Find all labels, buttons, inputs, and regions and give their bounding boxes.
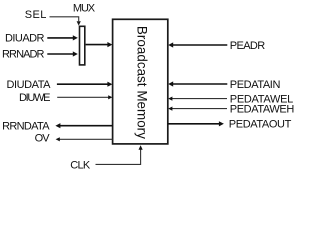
svg-text:DIUWE: DIUWE: [19, 92, 51, 104]
block U1 Broadcast Memory: [113, 19, 168, 144]
wire RRNDATA: [60, 125, 113, 127]
svg-text:DIUADR: DIUADR: [5, 33, 45, 45]
svg-text:RRNDATA: RRNDATA: [2, 120, 50, 132]
wire DIUWE: [57, 96, 108, 98]
svg-text:PEDATAOUT: PEDATAOUT: [229, 119, 292, 131]
wire PEDATAOUT: [168, 123, 219, 125]
wire PEDATAWEL: [172, 98, 227, 100]
mux M1: [80, 26, 85, 65]
svg-text:PEDATAIN: PEDATAIN: [230, 79, 281, 91]
svg-text:Broadcast Memory: Broadcast Memory: [134, 26, 149, 139]
svg-text:OV: OV: [35, 132, 51, 144]
svg-text:SEL: SEL: [25, 9, 47, 21]
svg-text:MUX: MUX: [73, 2, 96, 14]
wire PEADR: [173, 44, 228, 46]
wire RRNADR: [47, 53, 73, 55]
svg-text:CLK: CLK: [70, 159, 91, 171]
wire SEL: [50, 17, 79, 22]
wire MUX to memory: [86, 44, 108, 46]
svg-text:PEDATAWEH: PEDATAWEH: [230, 104, 295, 116]
wire DIUDATA: [57, 83, 108, 85]
wire OV: [59, 138, 112, 140]
svg-text:PEADR: PEADR: [230, 40, 265, 52]
svg-text:DIUDATA: DIUDATA: [7, 79, 52, 91]
wire PEDATAIN: [173, 83, 228, 85]
wire PEDATAWEH: [172, 108, 227, 110]
svg-text:RRNADR: RRNADR: [2, 49, 45, 61]
wire DIUADR: [47, 37, 73, 39]
wire CLK: [96, 150, 141, 165]
